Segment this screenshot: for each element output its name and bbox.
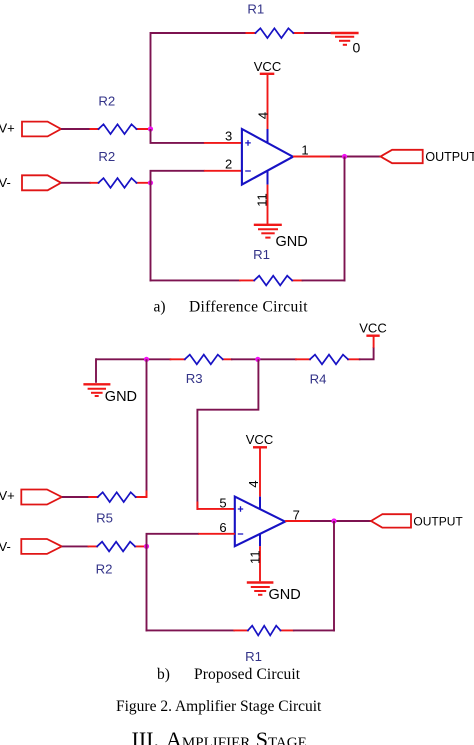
port OUTPUT: [371, 514, 411, 527]
svg-text:V+: V+: [0, 488, 15, 503]
junction: [148, 180, 153, 185]
wire: [151, 129, 205, 143]
port V-: [21, 539, 62, 554]
svg-text:3: 3: [225, 128, 232, 143]
ground 0: [331, 33, 359, 45]
junction: [255, 357, 260, 362]
wire pin 3 stub: [204, 142, 242, 144]
svg-text:GND: GND: [276, 234, 308, 250]
svg-text:GND: GND: [105, 389, 137, 405]
wire: [151, 33, 246, 129]
junction: [144, 357, 149, 362]
svg-text:R2: R2: [96, 562, 113, 577]
svg-text:R3: R3: [186, 371, 203, 386]
svg-text:4: 4: [255, 112, 270, 119]
svg-text:R5: R5: [96, 511, 113, 526]
wire: [62, 545, 89, 547]
wire: [146, 359, 148, 497]
svg-text:R2: R2: [98, 94, 115, 109]
svg-text:R2: R2: [98, 149, 115, 164]
port V+: [22, 122, 61, 137]
svg-text:4: 4: [246, 480, 261, 487]
op-amp U1: [242, 129, 293, 185]
svg-text:V+: V+: [0, 120, 15, 135]
svg-text:11: 11: [248, 550, 263, 564]
wire: [147, 534, 200, 548]
svg-text:VCC: VCC: [246, 432, 273, 447]
wire: [197, 359, 258, 510]
wire: [293, 629, 335, 631]
junction: [331, 518, 336, 523]
wire: [310, 520, 371, 522]
wire: [151, 171, 205, 184]
ground GND: [247, 583, 274, 595]
svg-text:7: 7: [293, 508, 300, 523]
svg-text:5: 5: [219, 495, 226, 510]
svg-text:6: 6: [219, 520, 226, 535]
svg-text:1: 1: [301, 142, 308, 157]
svg-text:Amplifier Stage: Amplifier Stage: [166, 727, 307, 745]
wire pin 2 stub: [204, 170, 242, 172]
wire: [333, 521, 335, 631]
svg-text:Proposed Circuit: Proposed Circuit: [194, 666, 301, 683]
power VCC: [246, 432, 273, 447]
resistor R2: [91, 124, 151, 134]
port V-: [22, 175, 61, 190]
svg-text:Figure 2. Amplifier Stage Circ: Figure 2. Amplifier Stage Circuit: [116, 698, 322, 715]
wire: [231, 358, 297, 360]
wire pin 7 stub: [285, 520, 311, 522]
svg-text:b): b): [157, 666, 170, 683]
svg-text:V-: V-: [0, 175, 11, 190]
svg-text:R1: R1: [253, 247, 270, 262]
power VCC: [359, 320, 386, 347]
svg-text:V-: V-: [0, 539, 11, 554]
wire: [62, 496, 90, 498]
wire: [344, 157, 346, 282]
port V+: [21, 490, 62, 505]
wire: [150, 183, 152, 282]
junction: [342, 154, 347, 159]
resistor R2: [89, 542, 147, 552]
resistor R5: [89, 492, 146, 503]
resistor R1: [245, 28, 305, 38]
wire: [146, 629, 236, 631]
resistor R1: [240, 276, 302, 286]
svg-text:Difference Circuit: Difference Circuit: [189, 299, 308, 316]
svg-text:R1: R1: [245, 649, 262, 664]
wire: [150, 279, 241, 281]
wire: [96, 358, 171, 360]
wire: [302, 279, 346, 281]
svg-text:VCC: VCC: [359, 320, 386, 335]
svg-text:0: 0: [353, 40, 361, 56]
svg-text:R4: R4: [310, 372, 327, 387]
svg-text:GND: GND: [269, 587, 301, 603]
wire pin 5 stub: [197, 502, 234, 509]
svg-text:a): a): [154, 299, 166, 316]
svg-text:III.: III.: [132, 727, 159, 745]
wire pin 6 stub: [198, 533, 235, 535]
wire: [61, 182, 91, 184]
wire pin 11: [267, 185, 269, 225]
junction: [148, 126, 153, 131]
resistor R1: [234, 626, 293, 636]
port OUTPUT: [381, 150, 423, 163]
wire pin 4: [267, 74, 269, 129]
wire: [330, 156, 381, 158]
wire: [304, 32, 345, 34]
resistor R3: [171, 355, 232, 365]
power VCC: [254, 59, 281, 74]
svg-text:11: 11: [255, 193, 270, 207]
svg-text:VCC: VCC: [254, 59, 281, 74]
wire pin 11: [259, 546, 261, 581]
junction: [144, 544, 149, 549]
svg-text:OUTPUT: OUTPUT: [413, 514, 463, 528]
svg-text:2: 2: [225, 157, 232, 172]
wire pin 4: [259, 447, 261, 496]
ground GND: [254, 225, 282, 238]
ground GND: [83, 384, 110, 396]
svg-text:R1: R1: [247, 2, 264, 17]
resistor R2: [91, 178, 151, 188]
wire: [359, 347, 374, 359]
op-amp U2: [235, 497, 285, 547]
svg-text:OUTPUT: OUTPUT: [425, 150, 474, 164]
wire: [146, 546, 148, 631]
wire: [61, 128, 91, 130]
wire pin 1 stub: [293, 156, 331, 158]
wire: [95, 358, 97, 383]
resistor R4: [296, 355, 359, 365]
